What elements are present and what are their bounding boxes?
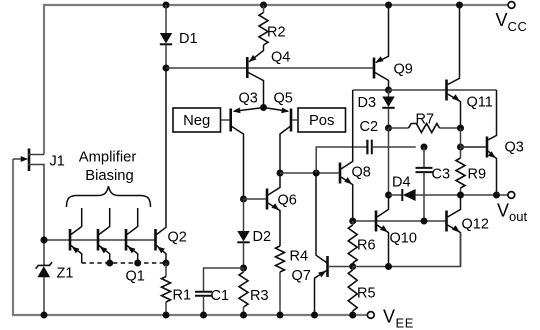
label Pos <box>309 113 335 129</box>
resistor R6 <box>348 225 357 263</box>
diode D3 <box>382 97 394 108</box>
label Z1 <box>57 266 74 282</box>
node Q2 emitter / R1 top <box>163 260 170 267</box>
wire R3 bottom lead <box>243 307 245 315</box>
wire D3 cathode lead <box>388 108 390 128</box>
node Q10 emitter junction <box>385 263 392 270</box>
wire D3 anode lead <box>388 90 390 97</box>
node R9 / Q12 collector junction <box>457 192 464 199</box>
wire bias base line <box>44 239 156 241</box>
resistor R5 <box>348 270 357 311</box>
node D1 cathode junction <box>163 65 170 72</box>
label D3 <box>358 95 377 111</box>
wire D1 anode lead <box>165 5 167 33</box>
wire D2 to Q6 base <box>244 198 266 200</box>
label Q9 <box>394 62 413 78</box>
svg-text:D1: D1 <box>179 31 198 47</box>
svg-text:Q3: Q3 <box>505 140 524 156</box>
label J1 <box>50 154 65 170</box>
node R5 bottom on VEE rail <box>349 312 356 319</box>
transistor J1 channel bar <box>28 149 31 172</box>
label Q2 <box>168 230 187 246</box>
label R4 <box>290 249 309 265</box>
wire D1 cathode lead <box>165 45 167 69</box>
diode D2 <box>237 231 249 242</box>
wire Vout line right segment <box>416 194 508 196</box>
node C3 base tap <box>421 218 428 225</box>
diode D4 <box>402 189 415 201</box>
svg-text:C3: C3 <box>432 167 451 183</box>
wire R1 top lead <box>165 263 167 277</box>
svg-text:Amplifier: Amplifier <box>79 149 137 165</box>
node R6 bottom junction <box>349 263 356 270</box>
wire R1 bottom lead <box>165 302 167 315</box>
wire C2 left branch <box>316 147 367 173</box>
svg-text:D4: D4 <box>392 175 411 191</box>
resistor R4 <box>276 246 285 272</box>
svg-text:Q10: Q10 <box>390 231 417 247</box>
wire R2 top lead <box>263 5 265 13</box>
node Q7 emitter on VEE rail <box>311 312 318 319</box>
label C1 <box>211 288 230 304</box>
node D1 top on VCC rail <box>163 2 170 9</box>
resistor R2 <box>259 13 268 46</box>
label R1 <box>173 288 192 304</box>
label Neg <box>183 113 210 129</box>
wire Q3 collector to D2 <box>243 199 245 231</box>
svg-text:Q12: Q12 <box>462 217 489 233</box>
wire Vout line left segment <box>389 194 403 196</box>
label Q1 <box>126 269 145 285</box>
node Z1 top <box>41 237 48 244</box>
svg-text:Q9: Q9 <box>394 62 413 78</box>
label Q3 output <box>505 140 524 156</box>
svg-text:V: V <box>383 307 395 327</box>
svg-text:Q1: Q1 <box>126 269 145 285</box>
label D4 <box>392 175 411 191</box>
wire dashed emitter tie line <box>82 262 166 264</box>
node D2 anode junction <box>240 196 247 203</box>
transistor Q3 input <box>231 108 264 200</box>
svg-text:Q3: Q3 <box>239 91 258 107</box>
label C2 <box>360 119 379 135</box>
wire J1 gate lead <box>13 158 22 160</box>
node C1 bottom on VEE rail <box>200 312 207 319</box>
resistor R7 <box>409 124 440 133</box>
wire R6 top lead <box>352 221 354 225</box>
transistor Q7 <box>315 173 328 315</box>
node Vout terminal <box>508 192 515 199</box>
node C2/C3 junction <box>421 144 428 151</box>
label Q6 <box>278 193 297 209</box>
resistor R9 <box>456 158 465 188</box>
svg-text:R4: R4 <box>290 249 309 265</box>
transistor Q1 <box>126 208 138 263</box>
node R2 top on VCC rail <box>260 2 267 9</box>
transistor Q5 <box>264 108 292 174</box>
wire R7 left lead <box>389 127 409 129</box>
svg-text:Z1: Z1 <box>57 266 74 282</box>
wire J1 drain stub <box>28 154 44 156</box>
resistor R3 <box>239 272 248 307</box>
label Q12 <box>462 217 489 233</box>
wire R3 top lead <box>243 268 245 272</box>
transistor bias PNP left <box>70 208 82 263</box>
wire base bias line <box>166 67 374 69</box>
svg-text:D2: D2 <box>253 229 272 245</box>
label Vout <box>497 201 527 225</box>
transistor Q11 <box>447 5 461 128</box>
transistor Q3 output <box>487 90 497 195</box>
node R4 bottom on VEE rail <box>277 312 284 319</box>
transistor Q12 <box>447 195 461 267</box>
wire Q7 base line <box>329 266 353 268</box>
node diff pair emitter junction <box>260 104 267 111</box>
node Q11 emitter junction <box>457 144 464 151</box>
label Q11 <box>467 95 493 111</box>
svg-text:Q11: Q11 <box>467 95 493 111</box>
svg-text:Pos: Pos <box>309 113 335 129</box>
node Q9 collector junction <box>385 87 392 94</box>
node VEE terminal <box>367 312 374 319</box>
capacitor C1 <box>195 292 212 296</box>
wire R5 bottom lead <box>352 311 354 315</box>
wire base line to output transistor <box>461 146 486 148</box>
label Amplifier <box>79 149 137 165</box>
gate arrow of J1 <box>21 156 29 162</box>
svg-text:J1: J1 <box>50 154 65 170</box>
wire mirror output line <box>389 89 497 91</box>
wire top-left drop to J1 drain <box>43 4 45 155</box>
wire R7 right lead <box>439 127 460 129</box>
wire J1 source stub <box>28 165 44 241</box>
node Q5/Q6 collector junction <box>277 170 284 177</box>
label R5 <box>357 286 376 302</box>
svg-text:R2: R2 <box>267 25 286 41</box>
label R2 <box>267 25 286 41</box>
label Q8 <box>352 165 371 181</box>
capacitor C3 <box>416 168 433 172</box>
node Q10 collector / Vout-line left end <box>385 192 392 199</box>
wire collector line to Q8 base <box>280 172 339 174</box>
zener Z1 <box>36 262 52 315</box>
node emitter tie 1 <box>106 260 113 267</box>
svg-text:R6: R6 <box>357 238 376 254</box>
svg-text:CC: CC <box>508 19 528 34</box>
box Pos <box>298 108 346 132</box>
svg-text:R1: R1 <box>173 288 192 304</box>
label VCC <box>496 10 528 34</box>
wire R6 bottom lead <box>352 263 354 267</box>
label VEE <box>383 307 414 330</box>
wire C1 branch <box>204 268 244 292</box>
svg-text:V: V <box>496 10 508 30</box>
svg-text:R7: R7 <box>416 112 435 128</box>
wire Q8 collector top run <box>353 89 389 91</box>
capacitor C2 <box>367 140 371 155</box>
node C2 tap junction <box>313 170 320 177</box>
node D3 cathode junction <box>385 125 392 132</box>
svg-text:Q8: Q8 <box>352 165 371 181</box>
transistor Q8 <box>340 90 353 221</box>
wire C1 bottom lead <box>203 296 205 315</box>
node emitter tie 2 <box>134 260 141 267</box>
transistor Q10 <box>376 195 389 267</box>
label Q3 input <box>239 91 258 107</box>
transistor Q6 <box>267 173 280 246</box>
svg-text:C2: C2 <box>360 119 379 135</box>
node Z1 bottom on VEE rail <box>41 312 48 319</box>
svg-text:V: V <box>497 201 509 221</box>
transistor Q4 <box>247 45 263 108</box>
svg-text:Neg: Neg <box>183 113 210 129</box>
label Q4 <box>271 50 290 66</box>
brace over biasing transistors <box>67 186 151 207</box>
label R6 <box>357 238 376 254</box>
node D2 bottom junction <box>240 265 247 272</box>
svg-text:Q4: Q4 <box>271 50 290 66</box>
wire R5 top lead <box>352 267 354 271</box>
wire output base line <box>461 146 486 148</box>
wire left gate drop <box>12 159 14 316</box>
label Q10 <box>390 231 417 247</box>
wire Pos to Q5 base <box>292 119 298 121</box>
svg-text:Q7: Q7 <box>292 268 311 284</box>
resistor R1 <box>162 277 171 303</box>
box Neg <box>173 108 221 132</box>
wire Z1 top lead <box>43 240 45 265</box>
node R1 bottom on VEE rail <box>163 312 170 319</box>
wire Q11 emitter to R9 <box>460 128 462 158</box>
wire driver emitter return line <box>353 233 461 267</box>
node Q11 collector on VCC rail <box>456 2 463 9</box>
transistor bias PNP middle <box>98 208 110 263</box>
wire Neg to Q3 base <box>221 119 230 121</box>
wire D3 junction down to Vout node <box>388 128 390 195</box>
svg-text:R5: R5 <box>357 286 376 302</box>
node R6 top junction <box>349 218 356 225</box>
transistor Q9 <box>374 5 389 90</box>
wire D2 cathode lead <box>243 243 245 269</box>
label Biasing <box>85 168 134 184</box>
svg-text:R9: R9 <box>468 167 487 183</box>
transistor Q2 <box>156 68 167 263</box>
label Q7 <box>292 268 311 284</box>
svg-text:Q6: Q6 <box>278 193 297 209</box>
node Q3 output emitter junction <box>493 192 500 199</box>
svg-text:Q5: Q5 <box>274 91 293 107</box>
wire R9 bottom lead <box>460 188 462 195</box>
wire C3 bottom lead <box>423 172 425 221</box>
svg-text:R3: R3 <box>250 288 269 304</box>
svg-text:EE: EE <box>396 316 415 330</box>
node VCC terminal <box>508 2 515 9</box>
diode D1 <box>160 33 172 44</box>
label D1 <box>179 31 198 47</box>
svg-text:Biasing: Biasing <box>85 168 134 184</box>
label R3 <box>250 288 269 304</box>
label Q5 <box>274 91 293 107</box>
svg-text:C1: C1 <box>211 288 230 304</box>
label R7 <box>416 112 435 128</box>
wire R4 bottom lead <box>279 272 281 315</box>
wire top VCC rail <box>44 4 508 6</box>
wire driver base line <box>353 220 447 222</box>
node R7 right junction <box>457 125 464 132</box>
wire bottom VEE rail <box>13 314 367 316</box>
svg-text:Q2: Q2 <box>168 230 187 246</box>
label C3 <box>432 167 451 183</box>
label D2 <box>253 229 272 245</box>
wire C3 top lead <box>423 147 425 168</box>
label R9 <box>468 167 487 183</box>
svg-text:out: out <box>509 209 527 224</box>
node R3 bottom on VEE rail <box>240 312 247 319</box>
node J1 source / bias base junction <box>41 237 48 244</box>
node Q9 emitter on VCC rail <box>385 2 392 9</box>
wire C2 right lead <box>372 146 416 148</box>
svg-text:D3: D3 <box>358 95 377 111</box>
